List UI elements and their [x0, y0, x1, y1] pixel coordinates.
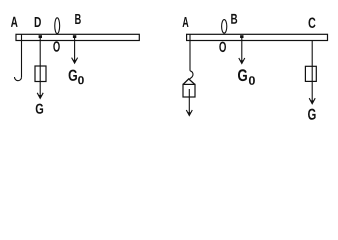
label G (left)	[36, 104, 43, 114]
hanging block at A (right)	[183, 84, 195, 97]
hanger triangle on block (right)	[183, 79, 195, 85]
attachment tick at D	[39, 35, 42, 38]
force arrow G0 (left)	[74, 37, 76, 62]
lever beam (right diagram)	[187, 34, 328, 40]
node label B (left)	[75, 14, 81, 24]
label G0 (right)	[238, 69, 247, 81]
force arrow below block (right A)	[188, 89, 190, 115]
string at D through weight	[39, 37, 41, 97]
node label B (right)	[231, 14, 237, 24]
node label O (right)	[219, 42, 226, 53]
label G0 (left)	[69, 70, 77, 81]
hanger wire at A (left)	[21, 34, 23, 77]
hook at A (left)	[14, 77, 21, 81]
hook at A (right)	[189, 71, 193, 80]
label G (right)	[308, 109, 316, 120]
node label A (right)	[183, 17, 189, 27]
fulcrum ring at O (right)	[222, 20, 227, 34]
weight block at C	[305, 66, 316, 81]
force arrow G (left) arrowhead	[37, 93, 43, 99]
string at C through weight	[311, 41, 313, 103]
force arrow G (right) arrowhead	[309, 98, 315, 104]
node label O (left)	[53, 41, 60, 52]
weight block at D	[35, 66, 46, 82]
node label C	[309, 18, 316, 29]
hanger wire at A (right)	[189, 34, 191, 71]
node label A (left)	[11, 17, 18, 27]
lever beam (left diagram)	[16, 34, 139, 40]
force arrow G0 (right)	[241, 37, 243, 63]
attachment tick at B (right)	[240, 35, 243, 38]
fulcrum ring at O (left)	[55, 18, 60, 34]
attachment tick at B (left)	[73, 35, 76, 38]
node label D	[35, 17, 41, 27]
